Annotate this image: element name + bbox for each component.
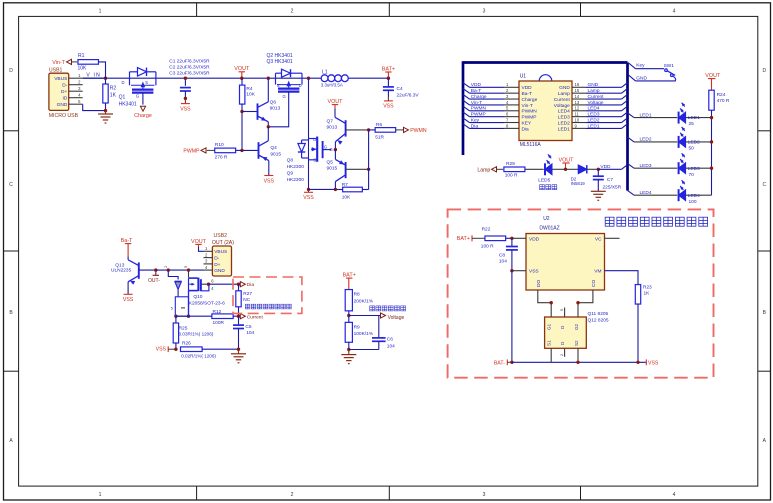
port Charge <box>134 106 152 119</box>
label shiyong shibie dianzu dianliu <box>245 304 291 309</box>
junction rail SW node <box>307 77 310 80</box>
port BAT+ at rail <box>382 67 395 79</box>
resistor R2 <box>103 78 117 110</box>
svg-text:51R: 51R <box>375 135 384 141</box>
svg-text:Ba-T: Ba-T <box>471 88 481 94</box>
svg-text:G1: G1 <box>547 323 552 330</box>
ground below divider <box>341 350 356 364</box>
junction BAT- node <box>510 361 513 364</box>
svg-text:DO: DO <box>536 280 542 287</box>
svg-text:9015: 9015 <box>270 151 281 157</box>
svg-text:LED2: LED2 <box>588 117 600 123</box>
junction LED3 column <box>710 167 713 170</box>
svg-text:Q3 HK3401: Q3 HK3401 <box>267 59 293 65</box>
svg-text:BAT-: BAT- <box>494 361 505 367</box>
svg-text:R23: R23 <box>643 285 652 291</box>
svg-text:70: 70 <box>689 172 695 178</box>
junction Q5 base node <box>367 168 370 171</box>
wire VBUS to rail node <box>83 77 106 79</box>
svg-text:CO: CO <box>591 280 597 287</box>
junction divider bottom <box>347 348 350 351</box>
U1 right pins 16-9 <box>554 82 586 132</box>
svg-text:LED2: LED2 <box>640 137 652 143</box>
svg-text:R2: R2 <box>110 86 117 92</box>
svg-text:2: 2 <box>291 492 294 498</box>
junction BAT+ node <box>387 77 390 80</box>
svg-text:2: 2 <box>560 354 564 356</box>
svg-text:Current: Current <box>588 94 605 100</box>
svg-text:5: 5 <box>560 309 564 311</box>
resistor R12 <box>212 309 239 326</box>
svg-text:VSS: VSS <box>303 195 314 201</box>
wire LED1 from bus <box>628 112 678 118</box>
svg-text:IN5819: IN5819 <box>571 181 586 186</box>
svg-text:10K: 10K <box>246 92 255 98</box>
transistor Q13 ULN2235 <box>111 257 156 295</box>
svg-text:VC: VC <box>595 236 602 242</box>
LED LED4 <box>679 180 712 205</box>
svg-text:C3 22uF/6.3V/X5R: C3 22uF/6.3V/X5R <box>169 71 210 77</box>
svg-text:Q9: Q9 <box>287 170 294 176</box>
label zhaomingdeng <box>540 185 557 190</box>
power VSS below Q4 <box>264 176 275 185</box>
junction C1 top <box>184 77 187 80</box>
svg-text:VSS: VSS <box>156 347 167 353</box>
port BAT+ divider <box>343 273 356 290</box>
svg-text:PWMP: PWMP <box>522 115 537 121</box>
inductor L1 <box>321 69 348 87</box>
frame row ticks <box>4 131 771 371</box>
svg-text:LED1: LED1 <box>588 123 600 129</box>
port VOUT above R24 <box>705 73 721 90</box>
svg-text:Ba-T: Ba-T <box>121 238 133 244</box>
svg-text:9013: 9013 <box>327 125 338 131</box>
svg-text:NC: NC <box>243 297 250 303</box>
resistor R26 <box>181 341 239 359</box>
svg-text:R27: R27 <box>243 291 252 297</box>
transistor Q10 K2058 <box>189 270 226 307</box>
transistor Q6 9013 <box>242 78 281 127</box>
svg-text:S: S <box>313 157 316 162</box>
svg-text:Key: Key <box>471 117 480 123</box>
wire U2 VC stub <box>605 237 620 239</box>
svg-text:LED4: LED4 <box>588 106 600 112</box>
port VOUT usb2 <box>191 239 207 247</box>
dual MOSFET Q11 Q12 8205 body <box>545 317 587 348</box>
label li dianchi erci baohu dianlu <box>605 217 707 226</box>
wire current row <box>176 315 212 317</box>
svg-text:12: 12 <box>575 106 580 111</box>
U1 right net wires and labels <box>586 82 628 129</box>
wire LED cathode column <box>711 110 713 195</box>
diode D2 IN5819 <box>566 165 599 186</box>
junction R23 bottom <box>636 361 639 364</box>
resistor R4 <box>240 78 256 150</box>
svg-text:9013: 9013 <box>270 106 281 112</box>
wire divider bottom <box>349 349 379 351</box>
svg-text:GND: GND <box>588 82 599 88</box>
svg-text:C8: C8 <box>499 253 505 259</box>
svg-text:USB1: USB1 <box>49 68 63 74</box>
wire Q10 to Dia node <box>209 283 239 285</box>
svg-text:LED3: LED3 <box>558 115 570 121</box>
junction C1 bottom <box>184 97 187 100</box>
svg-text:G: G <box>329 147 333 152</box>
sense box below diode <box>171 297 189 316</box>
junction Q5 collector bottom <box>334 188 337 191</box>
svg-text:VDD: VDD <box>529 236 540 242</box>
svg-text:Vin-T: Vin-T <box>522 103 533 109</box>
svg-text:4: 4 <box>673 8 676 14</box>
IC U2 DW01AZ body <box>526 216 605 290</box>
svg-text:LED1: LED1 <box>688 115 700 121</box>
svg-text:GND: GND <box>214 268 225 274</box>
svg-text:100R: 100R <box>213 320 225 326</box>
svg-text:3.3uH/3.5A: 3.3uH/3.5A <box>321 82 343 87</box>
power VSS below C1 <box>180 98 191 112</box>
junction driver mid node <box>267 125 270 128</box>
wire LED4 from bus <box>628 190 678 196</box>
junction OUT- node <box>154 268 157 271</box>
resistor R9 <box>345 316 374 350</box>
wire U2 VSS pin <box>512 270 526 272</box>
frame zone numbers bottom <box>99 492 676 498</box>
transistor Q8 Q9 HK2300 <box>287 78 332 189</box>
svg-text:100 R: 100 R <box>505 172 518 178</box>
wire VDD to bus <box>598 165 627 170</box>
junction current row mid <box>187 315 190 318</box>
svg-text:C4: C4 <box>397 86 403 92</box>
junction V IN node <box>104 77 107 80</box>
junction Q6 base node <box>240 110 243 113</box>
U1 left net wires and labels <box>463 82 504 129</box>
svg-text:LED2: LED2 <box>688 140 700 146</box>
resistor R22 <box>481 227 512 250</box>
svg-text:22uF/6.3V: 22uF/6.3V <box>397 92 420 98</box>
svg-text:ULN2235: ULN2235 <box>111 268 132 274</box>
label Q11 Q12 designators <box>588 311 609 324</box>
junction U2 VDD node <box>510 237 513 240</box>
junction S2 node <box>576 361 579 364</box>
svg-text:GND: GND <box>636 76 647 82</box>
svg-text:14: 14 <box>575 94 580 99</box>
svg-text:R9: R9 <box>354 325 360 331</box>
svg-text:D: D <box>299 83 302 88</box>
junction R2 bottom <box>104 109 107 112</box>
svg-text:PWMN: PWMN <box>410 128 427 134</box>
port PWMN <box>404 127 427 134</box>
diode D3 body <box>168 270 181 297</box>
svg-text:C5: C5 <box>245 324 251 330</box>
svg-text:1K: 1K <box>110 93 117 99</box>
pin S1 bottom to BAT- <box>550 348 552 362</box>
resistor R29 <box>504 161 544 179</box>
switch SW1 <box>664 63 676 81</box>
svg-text:G2: G2 <box>574 323 579 330</box>
svg-text:9015: 9015 <box>327 166 338 172</box>
svg-text:Lamp: Lamp <box>558 91 570 97</box>
LED LED3 <box>679 153 712 178</box>
svg-text:Current: Current <box>554 97 571 103</box>
svg-text:10: 10 <box>575 117 580 122</box>
port Lamp <box>477 167 503 174</box>
resistor R6 <box>369 122 404 140</box>
junction VOUT node <box>240 77 243 80</box>
svg-text:100K/1%: 100K/1% <box>354 331 374 337</box>
svg-text:LED4: LED4 <box>640 190 652 196</box>
junction VDD node <box>597 168 600 171</box>
wire bottom tie to VSS node <box>309 188 336 190</box>
wire VBUS to VOUT <box>199 247 204 252</box>
bus right vertical <box>626 63 629 191</box>
LED LED1 <box>679 103 712 128</box>
svg-text:ML5116A: ML5116A <box>520 142 542 148</box>
junction Current node <box>237 315 240 318</box>
wire U2 DO to G1 <box>538 290 551 317</box>
junction VOUT lamp node <box>564 168 567 171</box>
svg-text:LED3: LED3 <box>688 166 700 172</box>
svg-text:R1: R1 <box>78 53 85 59</box>
resistor R7 <box>335 182 368 201</box>
svg-text:PWMP: PWMP <box>471 112 486 118</box>
junction Q10 branch <box>184 266 190 272</box>
junction Q7 base node <box>367 128 370 131</box>
svg-text:270 R: 270 R <box>215 155 228 161</box>
port VSS left of R26 <box>156 346 176 352</box>
svg-text:10K: 10K <box>78 65 88 71</box>
transistor Q1 HK3401 <box>119 68 156 108</box>
svg-text:Vin-T: Vin-T <box>471 100 482 106</box>
ground below C7 <box>591 191 606 200</box>
svg-text:Voltage: Voltage <box>388 315 405 321</box>
svg-text:PWMP: PWMP <box>183 149 200 155</box>
svg-text:G: G <box>324 144 327 149</box>
net label VDD lamp <box>600 164 611 170</box>
svg-text:0.02R/1%( 1206): 0.02R/1%( 1206) <box>181 354 216 359</box>
connector USB1 <box>49 68 79 120</box>
svg-text:1: 1 <box>99 492 102 498</box>
junction gate node <box>334 148 337 151</box>
svg-text:VSS: VSS <box>123 297 134 303</box>
svg-text:LED4: LED4 <box>688 193 700 199</box>
svg-text:Q12 8205: Q12 8205 <box>588 317 609 323</box>
resistor R1 <box>78 53 99 71</box>
ground below C5 <box>231 349 246 363</box>
svg-text:VSS: VSS <box>383 104 394 110</box>
port Ba-T <box>121 238 133 257</box>
svg-text:Q11 8205: Q11 8205 <box>588 311 609 317</box>
svg-text:LED1: LED1 <box>640 112 652 118</box>
port VOUT at rail <box>234 66 250 78</box>
svg-text:D-: D- <box>214 256 219 262</box>
svg-text:GND: GND <box>57 102 68 108</box>
svg-text:Key: Key <box>636 62 645 68</box>
svg-text:HK3401: HK3401 <box>119 102 137 108</box>
svg-text:Dia: Dia <box>471 123 479 129</box>
port OUT- <box>148 270 160 284</box>
svg-text:11: 11 <box>575 112 580 117</box>
wire BAT- rail <box>512 361 646 363</box>
frame column ticks <box>197 3 581 500</box>
svg-text:OUT-: OUT- <box>148 278 160 284</box>
net label GND switch <box>628 75 676 82</box>
frame zone letters left <box>9 68 13 444</box>
svg-text:470 R: 470 R <box>717 98 730 104</box>
svg-text:D: D <box>313 137 316 142</box>
wire divider to Voltage <box>349 315 381 317</box>
svg-text:D+: D+ <box>61 89 67 95</box>
svg-text:R26: R26 <box>182 341 191 347</box>
svg-text:3: 3 <box>483 492 486 498</box>
capacitor C6 <box>372 316 395 350</box>
svg-text:U1: U1 <box>520 74 527 80</box>
svg-text:S1: S1 <box>547 340 552 346</box>
svg-text:D: D <box>121 80 124 85</box>
wire LED3 from bus <box>628 163 678 169</box>
resistor R23 <box>635 285 652 363</box>
label dianchi dianya jiance <box>370 306 406 311</box>
frame zone numbers top <box>99 8 676 14</box>
junction R10 node <box>240 149 243 152</box>
svg-text:MICRO USB: MICRO USB <box>49 113 79 119</box>
transistor Q7 9013 <box>327 108 369 149</box>
svg-text:DW01AZ: DW01AZ <box>539 225 559 231</box>
svg-text:D: D <box>762 68 766 74</box>
wire R1 to rail <box>99 62 106 78</box>
svg-text:R6: R6 <box>376 122 382 128</box>
svg-text:Dia: Dia <box>247 282 255 288</box>
svg-text:VSS: VSS <box>180 106 191 112</box>
svg-text:LED1: LED1 <box>558 126 570 132</box>
svg-text:Q6: Q6 <box>270 100 277 106</box>
svg-text:USB2: USB2 <box>214 233 228 239</box>
junction G2 node <box>576 301 579 304</box>
svg-text:1: 1 <box>99 8 102 14</box>
svg-text:225/X5R: 225/X5R <box>603 184 622 190</box>
svg-text:U2: U2 <box>543 216 550 222</box>
svg-text:Current: Current <box>247 314 264 320</box>
svg-text:C2 22uF/6.3V/X5R: C2 22uF/6.3V/X5R <box>169 65 210 71</box>
svg-text:S: S <box>145 80 148 85</box>
svg-text:Q13: Q13 <box>115 262 124 268</box>
capacitor C7 <box>593 169 622 191</box>
svg-text:Q7: Q7 <box>327 119 334 125</box>
svg-text:VSS: VSS <box>529 269 539 275</box>
svg-text:PWMN: PWMN <box>471 106 487 112</box>
junction ground node right <box>237 348 240 351</box>
svg-text:Voltage: Voltage <box>588 100 604 106</box>
USB1 pins 1-5 <box>69 73 83 104</box>
transistor Q2 Q3 HK3401 <box>267 53 303 99</box>
capacitor C4 <box>383 78 420 98</box>
power VSS below Q13 <box>123 294 134 303</box>
IC U1 ML5116A body <box>519 74 572 148</box>
svg-text:Charge: Charge <box>134 113 152 119</box>
svg-text:VDD: VDD <box>471 82 482 88</box>
wire Q2 gate to driver node <box>268 92 288 127</box>
svg-text:100: 100 <box>689 199 697 205</box>
capacitor C1 C2 C3 <box>169 59 210 99</box>
LED LED2 <box>679 127 712 152</box>
svg-text:R24: R24 <box>717 92 726 98</box>
svg-text:1K: 1K <box>644 290 651 296</box>
power VSS below C4 <box>383 98 394 110</box>
bus top horizontal <box>463 61 628 64</box>
net label V IN <box>86 73 101 79</box>
svg-text:R10: R10 <box>215 142 224 148</box>
resistor R24 <box>709 90 730 110</box>
net label Key <box>628 62 664 68</box>
junction Q8 source bottom <box>307 188 310 191</box>
svg-text:Lamp: Lamp <box>588 88 600 94</box>
svg-text:VBUS: VBUS <box>214 249 227 255</box>
pin D mid top Q11 <box>560 308 565 318</box>
svg-text:LED4: LED4 <box>558 109 570 115</box>
connector USB2 <box>204 233 235 276</box>
svg-text:R4: R4 <box>246 86 252 92</box>
frame zone letters right <box>762 68 766 444</box>
power VSS below Q8 <box>303 189 314 201</box>
wire LED2 from bus <box>628 137 678 143</box>
svg-text:Dia: Dia <box>522 126 530 132</box>
svg-text:C7: C7 <box>607 177 613 183</box>
svg-text:C: C <box>762 182 766 188</box>
pin S2 bottom to VSS rail <box>577 348 579 362</box>
svg-text:2: 2 <box>164 266 168 268</box>
svg-text:5: 5 <box>184 266 188 268</box>
svg-text:2: 2 <box>291 8 294 14</box>
svg-text:13: 13 <box>575 100 580 105</box>
junction LED2 column <box>710 140 713 143</box>
svg-text:Charge: Charge <box>522 97 538 103</box>
svg-text:ID: ID <box>62 96 67 102</box>
net port Voltage <box>381 313 405 321</box>
svg-text:VDD: VDD <box>522 85 533 91</box>
svg-text:KEY: KEY <box>522 120 532 126</box>
svg-text:R7: R7 <box>342 182 348 188</box>
transistor Q4 9015 <box>242 127 281 176</box>
svg-text:Q1: Q1 <box>119 95 126 101</box>
svg-text:Q5: Q5 <box>327 160 334 166</box>
svg-text:C: C <box>9 182 13 188</box>
net port Current <box>240 314 263 321</box>
svg-text:VSS: VSS <box>264 178 275 184</box>
port VOUT above Q7 <box>328 99 344 108</box>
svg-text:50: 50 <box>689 146 695 152</box>
svg-text:S2: S2 <box>574 340 579 346</box>
junction rail Q2 source <box>267 77 270 80</box>
svg-text:104: 104 <box>499 259 507 265</box>
svg-text:VM: VM <box>594 269 601 275</box>
svg-text:4: 4 <box>673 492 676 498</box>
wire base tie vertical <box>368 130 370 190</box>
port BAT- protection <box>494 359 512 366</box>
svg-text:100 R: 100 R <box>481 244 494 250</box>
U1 left pins 1-8 <box>504 82 538 132</box>
wire output gnd rail <box>156 269 204 271</box>
junction G1 node <box>550 301 553 304</box>
resistor R10 <box>207 142 242 161</box>
resistor R8 <box>345 290 374 316</box>
LED LED5 <box>538 154 565 183</box>
svg-text:Voltage: Voltage <box>554 103 570 109</box>
junction current row left <box>174 315 177 318</box>
svg-text:25: 25 <box>689 121 695 127</box>
svg-text:L1: L1 <box>322 69 328 75</box>
svg-text:R12: R12 <box>213 309 222 315</box>
junction divider mid <box>347 314 350 317</box>
svg-text:104: 104 <box>387 343 395 349</box>
